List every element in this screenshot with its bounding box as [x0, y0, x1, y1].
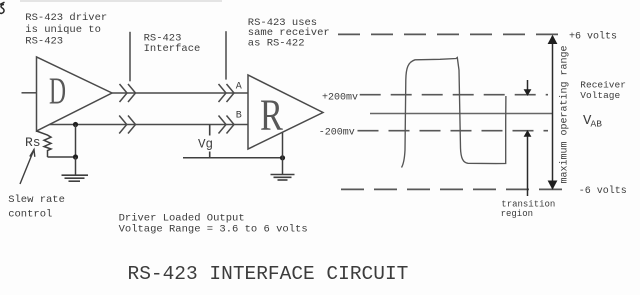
svg-text:D: D — [49, 70, 66, 112]
arrow: transition region upper (points down at +200mv) — [524, 80, 532, 96]
node: junction dot at receiver ground — [280, 155, 285, 160]
waveform trace — [402, 58, 506, 168]
svg-text:Interface: Interface — [144, 43, 201, 55]
chevron marks wire B receiver side — [219, 116, 235, 134]
resistor Rs — [37, 131, 52, 157]
dashed line -200mv — [358, 130, 549, 132]
wire: driver ground drop — [75, 157, 77, 175]
svg-text:B: B — [236, 110, 242, 121]
svg-text:-6 volts: -6 volts — [579, 185, 627, 197]
wire A (driver output to receiver input A) — [112, 92, 248, 94]
label: Slew rate control — [8, 194, 65, 221]
zero reference line — [370, 113, 553, 115]
wire B (return line to receiver input B) — [49, 124, 248, 126]
svg-text:Driver Loaded Output: Driver Loaded Output — [119, 212, 245, 224]
ground (driver) — [62, 175, 89, 181]
dashed line +6 volts — [338, 33, 563, 35]
svg-text:is unique to: is unique to — [25, 24, 101, 36]
dashed line -6 volts — [341, 188, 571, 190]
svg-text:region: region — [501, 209, 533, 219]
svg-text:AB: AB — [591, 118, 603, 129]
node: junction dot at rail — [73, 154, 78, 159]
label: transition region — [501, 199, 556, 219]
arrow: maximum operating range (vertical double arrow) — [548, 35, 558, 190]
wire: receiver ground drop — [282, 132, 284, 174]
svg-text:Slew rate: Slew rate — [8, 194, 65, 206]
svg-text:RS-423: RS-423 — [25, 36, 63, 48]
svg-text:Voltage: Voltage — [580, 90, 620, 101]
svg-text:R: R — [260, 90, 283, 139]
receiver U2 — [248, 75, 323, 149]
note: RS-423 Interface — [144, 33, 201, 55]
interface marker tick left — [129, 32, 131, 82]
svg-text:A: A — [236, 82, 242, 93]
driver U1 — [37, 57, 113, 131]
driver input wire — [22, 92, 37, 94]
svg-text:RS-423 INTERFACE CIRCUIT: RS-423 INTERFACE CIRCUIT — [128, 263, 409, 285]
svg-text:maximum operating range: maximum operating range — [559, 45, 571, 183]
svg-text:transition: transition — [501, 199, 555, 209]
note: RS-423 uses same receiver as RS-422 — [248, 17, 330, 49]
svg-text:+6 volts: +6 volts — [569, 30, 617, 42]
note: RS-423 driver is unique to RS-423 — [25, 12, 107, 48]
chevron marks wire B driver side — [119, 116, 135, 134]
svg-text:Voltage Range = 3.6 to 6 volts: Voltage Range = 3.6 to 6 volts — [119, 224, 308, 236]
node: junction dot on wire B — [73, 122, 78, 127]
label: Receiver Voltage — [580, 80, 626, 101]
wire: receiver ground rail — [183, 157, 283, 159]
svg-text:-200mv: -200mv — [319, 128, 355, 139]
wire: Rs bottom rail — [48, 156, 76, 158]
svg-text:Rs: Rs — [25, 135, 41, 150]
svg-text:+200mv: +200mv — [322, 93, 358, 104]
arrow: transition region lower with leader (points up at -200mv) — [524, 130, 532, 196]
interface marker tick right — [225, 31, 227, 79]
stray glyph fragment top-left — [0, 2, 5, 13]
label: VAB — [583, 113, 602, 129]
wire: vertical drop from wire B to rail — [75, 125, 77, 158]
note: Driver Loaded Output Voltage Range — [119, 212, 308, 235]
svg-text:Vg: Vg — [198, 138, 213, 152]
wire: Vg stub from wire B — [209, 125, 211, 159]
svg-text:as RS-422: as RS-422 — [248, 38, 305, 50]
dashed line +200mv — [360, 94, 548, 96]
svg-text:RS-423 driver: RS-423 driver — [25, 12, 107, 24]
ground (receiver) — [271, 175, 295, 181]
slew rate control callout arrow — [20, 150, 35, 185]
top edge artifact line — [20, 0, 222, 2]
chevron marks wire A receiver side — [219, 84, 235, 102]
chevron marks wire A driver side — [120, 84, 136, 102]
svg-text:control: control — [8, 209, 52, 221]
